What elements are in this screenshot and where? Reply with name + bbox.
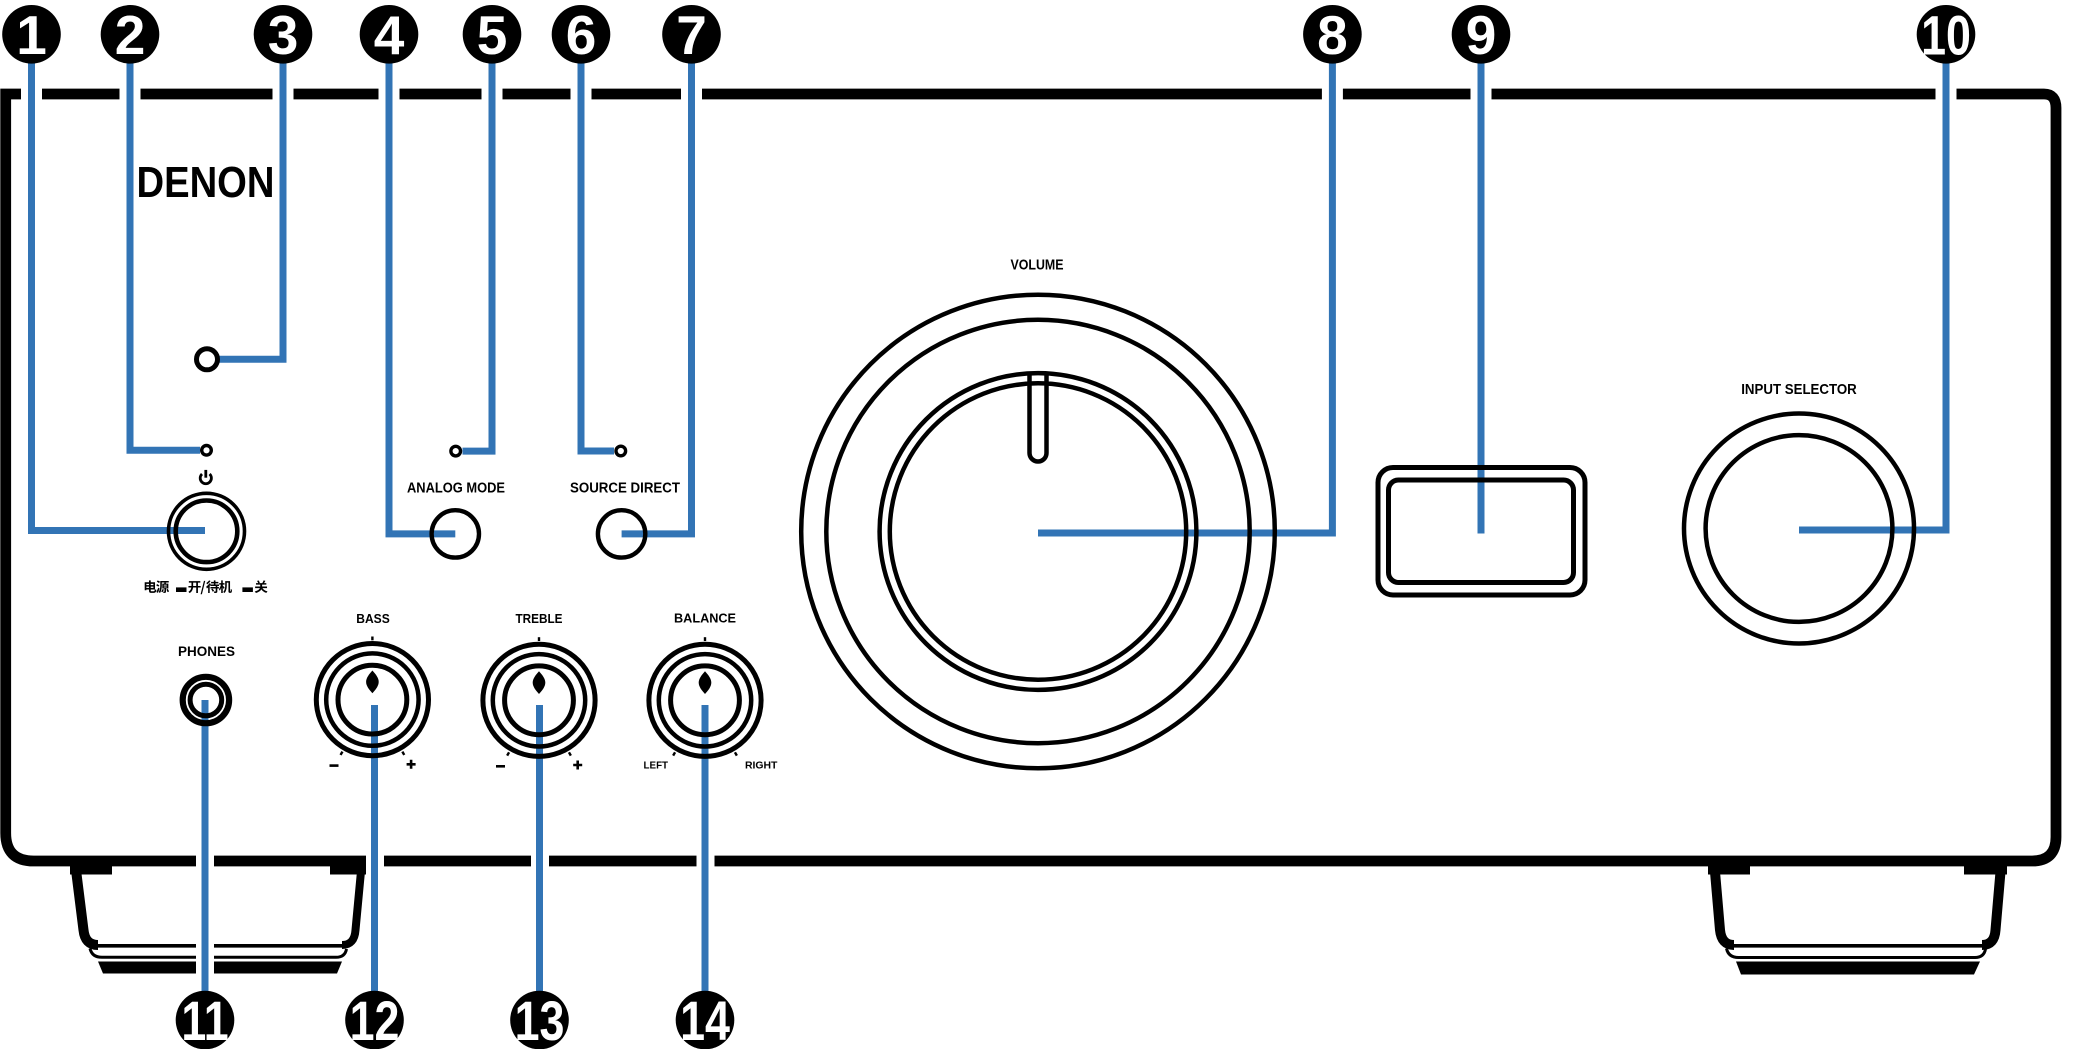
wire 5 [463, 60, 493, 451]
svg-text:5: 5 [477, 4, 508, 66]
analog mode LED (5) [451, 446, 461, 456]
bass minus [330, 764, 339, 767]
svg-text:SOURCE DIRECT: SOURCE DIRECT [570, 481, 680, 497]
callout 7 [662, 5, 721, 64]
right foot base bar [1736, 962, 1980, 975]
power standby symbol [200, 470, 211, 484]
white gaps in bottom border / left foot for lines 11-14 [196, 853, 214, 979]
caption bar 1 [176, 587, 187, 592]
svg-text:6: 6 [566, 4, 597, 66]
volume knob (8) [801, 295, 1275, 769]
bass plus [407, 760, 416, 769]
wire 6 [581, 60, 614, 451]
callout 14 [676, 991, 735, 1049]
svg-text:BASS: BASS [356, 612, 390, 626]
svg-text:12: 12 [350, 989, 400, 1049]
right foot left side [1715, 866, 1735, 945]
wire 8 [1038, 60, 1332, 533]
input selector knob (10) [1684, 414, 1914, 644]
left foot top-right notch [330, 864, 366, 875]
left foot tub bottom line [94, 944, 346, 948]
callout 3 [254, 5, 313, 64]
wire 11 [202, 700, 209, 995]
balance knob (14) [649, 644, 761, 756]
callout 2 [101, 5, 160, 64]
callout 5 [463, 5, 522, 64]
wire 9 [1478, 60, 1485, 534]
wire 12 [371, 705, 378, 995]
svg-text:7: 7 [676, 4, 707, 66]
svg-text:1: 1 [16, 4, 47, 66]
treble pointer [533, 671, 546, 694]
svg-text:INPUT SELECTOR: INPUT SELECTOR [1741, 381, 1857, 398]
svg-text:RIGHT: RIGHT [745, 760, 778, 772]
svg-text:11: 11 [181, 989, 228, 1049]
wire 13 [536, 705, 543, 995]
callout 12 [345, 991, 404, 1049]
source direct LED (6) [616, 446, 626, 456]
wire 2 [130, 60, 200, 450]
wire 1 [32, 60, 206, 531]
treble ticks [506, 637, 572, 756]
power caption (Chinese) [145, 580, 268, 594]
wire 14 [702, 705, 709, 995]
amplifier front panel outline [6, 94, 2056, 861]
callout 13 [510, 991, 569, 1049]
source direct button (7) [598, 510, 645, 557]
wire 4 [389, 60, 455, 534]
treble plus [573, 761, 582, 770]
right foot right side [1982, 866, 2001, 945]
callout 10 [1917, 5, 1976, 64]
svg-text:ANALOG MODE: ANALOG MODE [407, 481, 505, 497]
power indicator LED (2) [202, 446, 212, 456]
treble knob (13) [483, 644, 595, 756]
bass knob (12) [316, 644, 428, 756]
svg-text:PHONES: PHONES [178, 644, 235, 659]
svg-text:2: 2 [115, 4, 146, 66]
left foot left side [76, 866, 99, 945]
power button (1) [169, 493, 245, 569]
right foot [1708, 864, 2007, 975]
bass ticks [340, 637, 406, 756]
svg-text:10: 10 [1921, 4, 1971, 67]
right foot top-right notch [1964, 864, 2007, 875]
wire 10 [1799, 60, 1946, 530]
display window (9) [1378, 468, 1585, 596]
svg-text:3: 3 [268, 4, 299, 66]
balance ticks [672, 637, 738, 756]
svg-text:13: 13 [515, 989, 565, 1049]
callout 11 [176, 991, 235, 1049]
svg-text:14: 14 [680, 989, 730, 1049]
left foot top-left notch [70, 864, 112, 875]
caption bar 2 [242, 587, 253, 592]
callout 4 [360, 5, 419, 64]
wire 7 [622, 60, 692, 534]
right foot tub bottom line [1730, 944, 1986, 948]
phones jack (11) [183, 677, 229, 723]
wire 3 [218, 60, 283, 359]
left foot [70, 864, 366, 974]
right foot second plate line [1727, 949, 1986, 958]
callout 6 [552, 5, 611, 64]
balance pointer [699, 671, 712, 694]
left foot right side [342, 866, 362, 945]
left foot base bar [98, 962, 342, 974]
analog mode button (4) [432, 510, 479, 557]
svg-text:TREBLE: TREBLE [516, 612, 563, 626]
svg-text:9: 9 [1466, 4, 1497, 66]
left foot second plate line [90, 949, 347, 958]
svg-text:8: 8 [1317, 4, 1348, 66]
svg-text:BALANCE: BALANCE [674, 611, 736, 625]
treble minus [496, 765, 505, 768]
volume pointer slot [1030, 374, 1047, 462]
svg-text:VOLUME: VOLUME [1011, 257, 1064, 274]
white gaps in top border for callout lines [21, 86, 1957, 979]
callout 1 [2, 5, 61, 64]
svg-text:DENON: DENON [137, 159, 275, 207]
callout 8 [1303, 5, 1362, 64]
svg-text:LEFT: LEFT [644, 760, 669, 772]
callout 9 [1452, 5, 1511, 64]
right foot top-left notch [1708, 864, 1750, 875]
bass pointer [366, 671, 379, 694]
svg-text:4: 4 [374, 4, 405, 66]
remote sensor window (3) [197, 349, 218, 370]
